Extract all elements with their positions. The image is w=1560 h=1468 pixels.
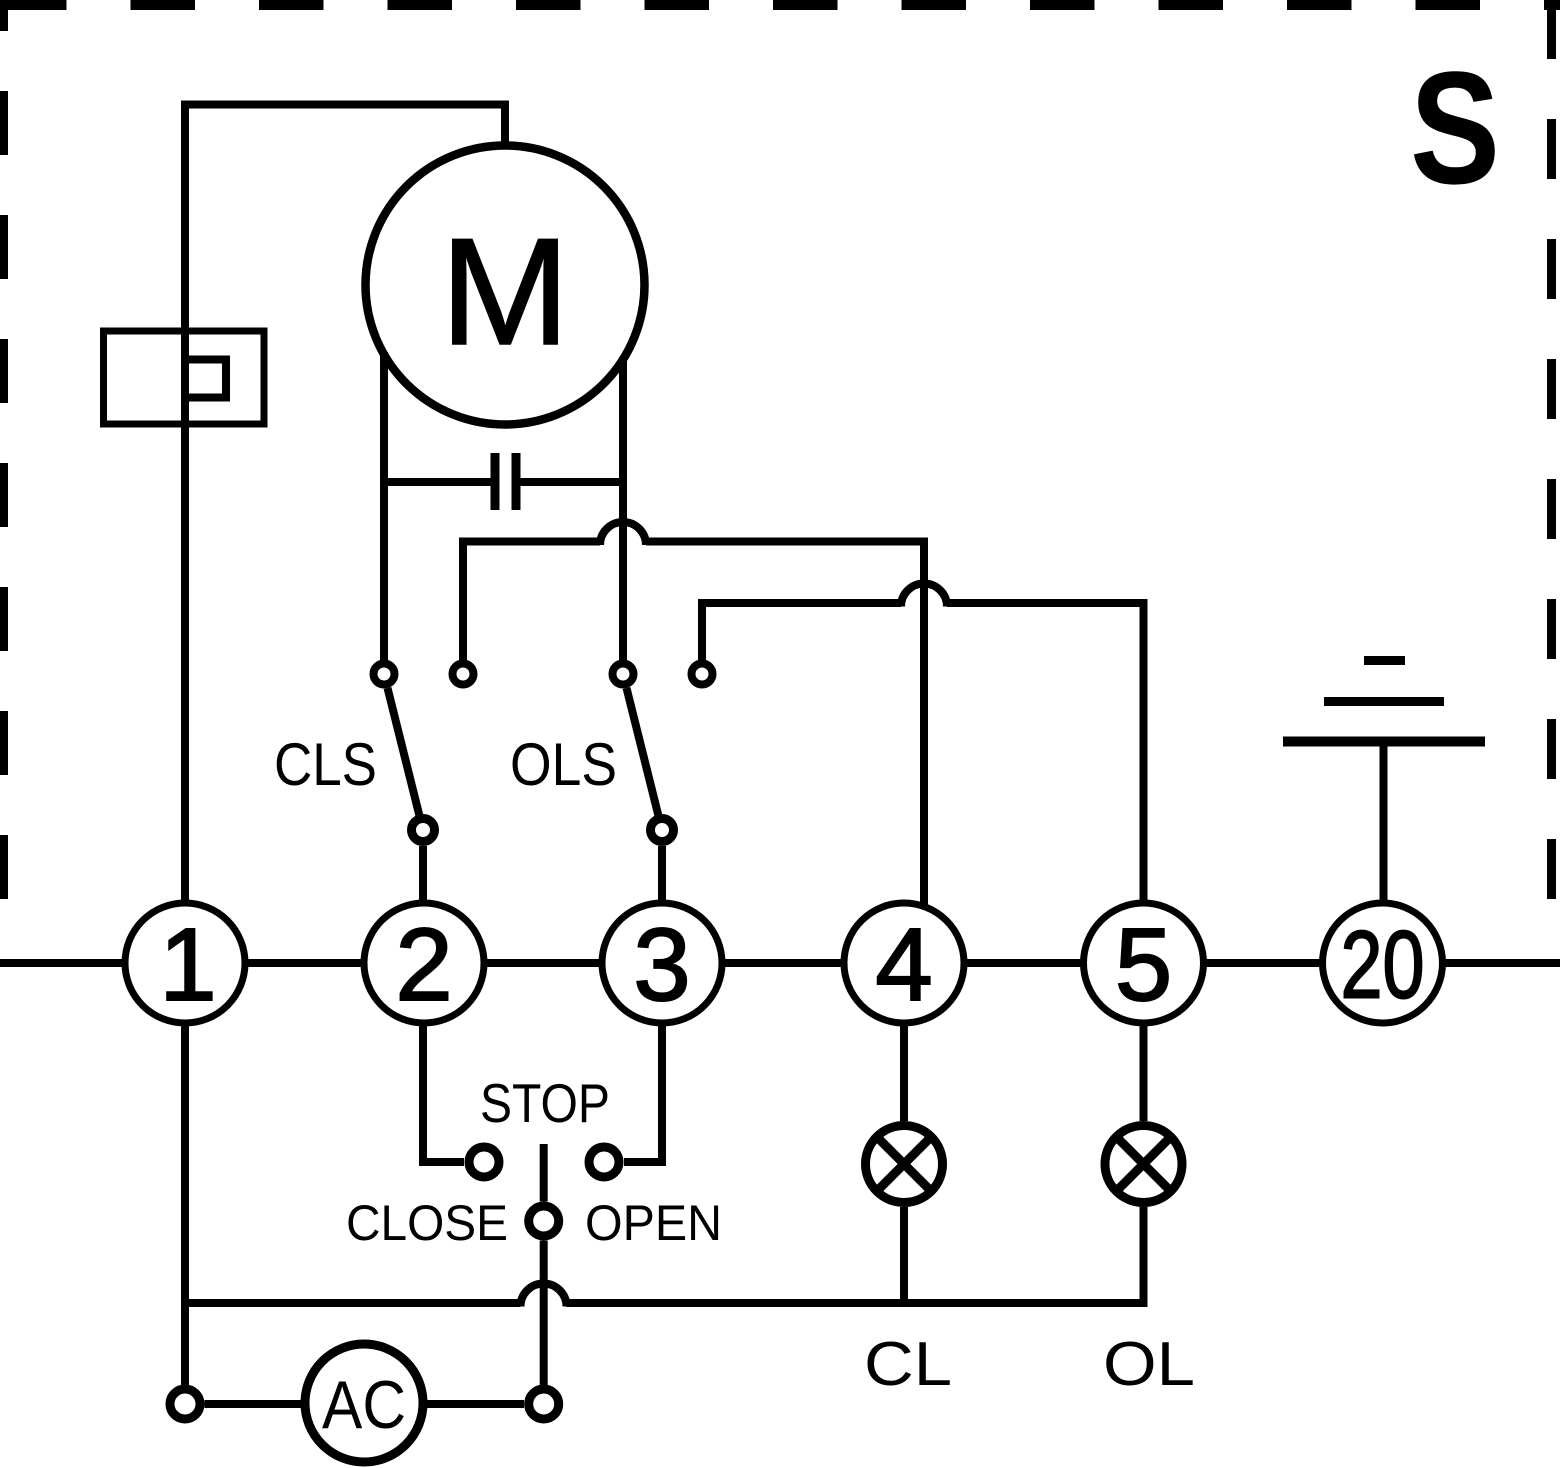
svg-text:CL: CL <box>864 1330 952 1399</box>
svg-text:CLOSE: CLOSE <box>346 1195 508 1251</box>
svg-text:M: M <box>440 207 570 377</box>
svg-text:3: 3 <box>633 907 690 1022</box>
svg-text:OL: OL <box>1103 1330 1195 1399</box>
svg-text:20: 20 <box>1341 912 1425 1019</box>
svg-text:S: S <box>1410 38 1500 217</box>
svg-text:2: 2 <box>395 907 452 1022</box>
svg-text:AC: AC <box>322 1367 406 1443</box>
svg-text:4: 4 <box>875 907 932 1022</box>
svg-text:CLS: CLS <box>274 731 377 798</box>
svg-text:OLS: OLS <box>510 731 617 798</box>
svg-text:OPEN: OPEN <box>585 1195 722 1251</box>
svg-text:1: 1 <box>159 907 216 1022</box>
svg-text:5: 5 <box>1115 907 1172 1022</box>
svg-text:STOP: STOP <box>480 1072 610 1134</box>
